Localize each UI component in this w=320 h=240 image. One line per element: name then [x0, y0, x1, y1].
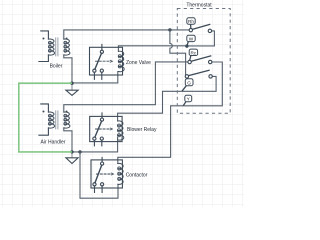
svg-text:Air Handler: Air Handler — [40, 140, 65, 146]
svg-text:Rc: Rc — [191, 50, 197, 55]
wire T2 secondary bottom lead to junction 2 — [64, 128, 72, 152]
relay K3 Contactor — [91, 157, 123, 192]
svg-text:W: W — [189, 36, 194, 41]
svg-text:Zone Valve: Zone Valve — [126, 60, 151, 66]
svg-text:Boiler: Boiler — [50, 63, 63, 69]
node common junction 1 — [70, 82, 73, 85]
thermostat dashed box — [177, 9, 230, 114]
switch G — [185, 70, 212, 78]
ground 2 (air handler side) — [66, 154, 78, 164]
switch Rc-Y — [188, 56, 212, 64]
wire zone valve coil bottom to common junction — [72, 72, 118, 83]
ground 1 (boiler side) — [66, 85, 78, 96]
wire contactor coil bottom to common — [80, 152, 118, 198]
svg-text:G: G — [187, 80, 191, 85]
wire air-handler R to Rc — [64, 62, 188, 112]
wire blower relay coil bottom to junction 2 — [72, 138, 118, 152]
relay K1 Zone Valve — [90, 44, 125, 79]
relay K2 Blower Relay — [90, 113, 124, 146]
node junction 2b riser tap — [78, 150, 81, 153]
terminal Rc — [189, 49, 197, 60]
wire jumper Rh node down to Rc/G with hop — [170, 30, 186, 75]
wire Y net: Rc right contact to contactor coil — [118, 62, 223, 164]
terminal G — [182, 79, 193, 92]
svg-text:Blower Relay: Blower Relay — [127, 127, 157, 133]
transformer T2 Air Handler — [39, 104, 70, 135]
transformer T1 Boiler — [39, 31, 70, 62]
wire boiler R to Rh — [64, 30, 189, 39]
svg-text:Contactor: Contactor — [126, 172, 148, 178]
svg-text:Rh: Rh — [188, 19, 194, 24]
node W junction dot — [185, 44, 188, 47]
wire Rh right contact down to W dot — [189, 31, 215, 46]
svg-text:Thermostat: Thermostat — [186, 3, 212, 9]
wire W net: zone valve coil top to W dot — [118, 46, 186, 52]
wire green common loop — [19, 83, 72, 152]
node junction dot on R wire — [168, 28, 171, 31]
node common junction 2 — [70, 150, 73, 153]
switch Rh-W — [189, 24, 211, 32]
terminal Rh — [187, 18, 195, 29]
wire G net: G right contact to blower relay coil — [118, 76, 217, 121]
wire T1 secondary bottom lead to junction — [64, 55, 72, 84]
terminal Y — [183, 95, 191, 105]
terminal W — [187, 35, 195, 46]
